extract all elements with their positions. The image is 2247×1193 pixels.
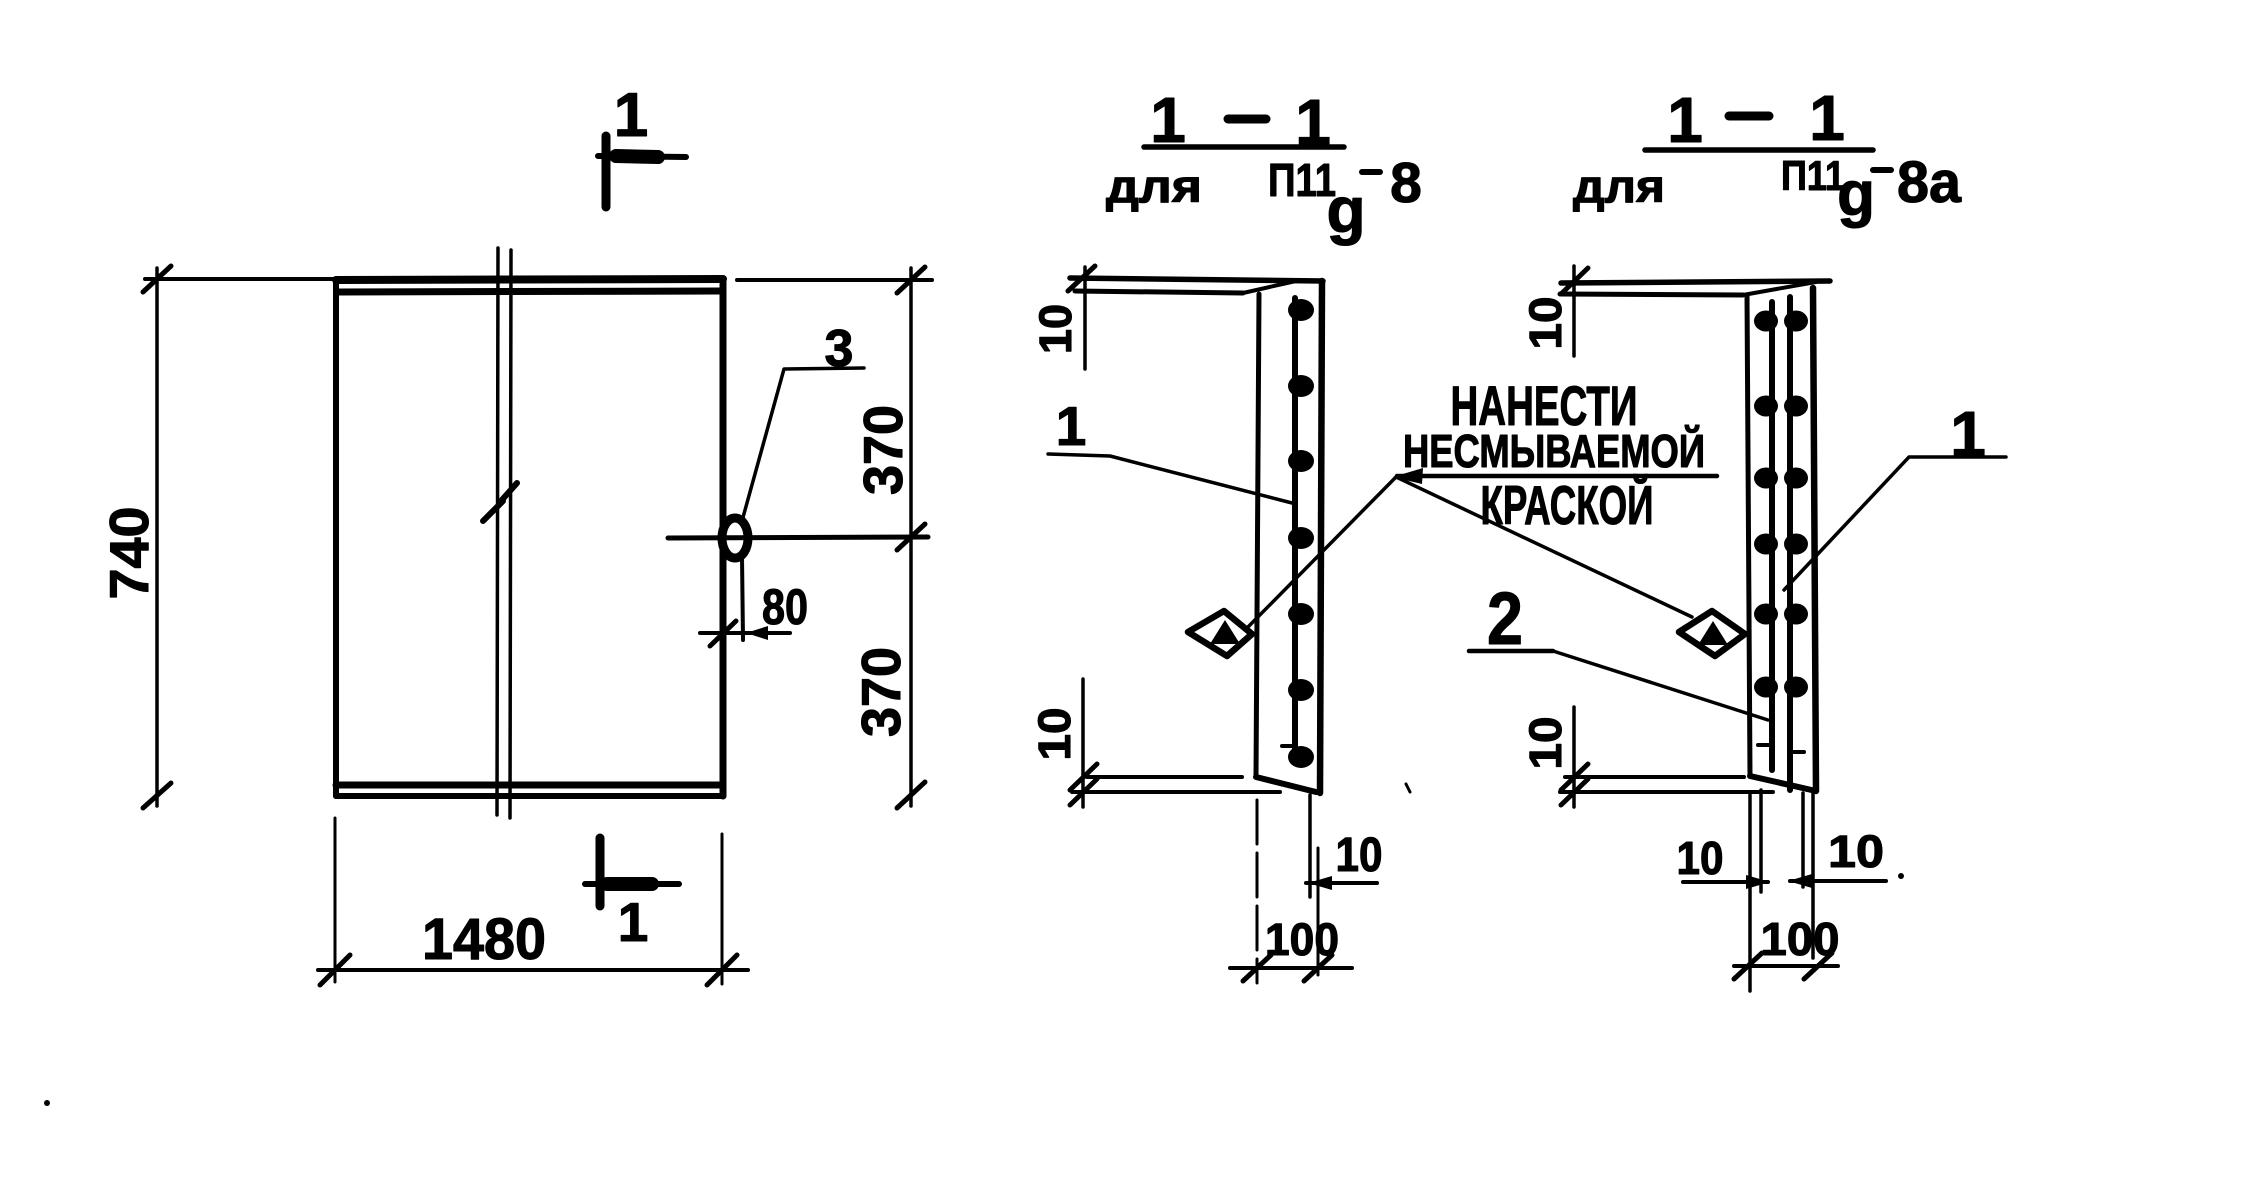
panel left edge — [333, 281, 339, 796]
note leader to left diamond — [1248, 477, 1396, 627]
middle channel web bottom — [1256, 777, 1316, 792]
middle leader 1 line — [1048, 454, 1292, 503]
right rebar dots — [1754, 311, 1808, 698]
leader 2 line — [1553, 651, 1768, 720]
dim 370 tick mid — [897, 524, 925, 550]
middle rebar dots — [1288, 299, 1314, 768]
middle dim 10 top line — [1083, 267, 1087, 369]
dim 80 arrow — [746, 626, 768, 640]
svg-text:1: 1 — [1056, 395, 1087, 457]
svg-text:10: 10 — [1336, 829, 1383, 882]
svg-text:10: 10 — [1029, 708, 1080, 761]
section marker bottom arrow — [585, 881, 679, 887]
svg-text:1: 1 — [1950, 398, 1986, 470]
speck mid — [1406, 784, 1410, 792]
right channel web left line — [1747, 295, 1750, 776]
leader 2 underline — [1469, 649, 1553, 654]
panel right edge — [720, 280, 727, 796]
right bottom dim 10 ticks — [1561, 764, 1588, 790]
svg-text:80: 80 — [762, 579, 808, 635]
middle dim 100 line — [1230, 966, 1352, 970]
svg-text:370: 370 — [850, 647, 912, 737]
dim 80 dimension line — [700, 631, 790, 635]
section marker top tick — [602, 136, 611, 207]
dim 370 tick bottom — [897, 782, 925, 808]
svg-text:для: для — [1573, 160, 1665, 212]
right title underline — [1645, 147, 1873, 153]
svg-text:НЕСМЫВАЕМОЙ: НЕСМЫВАЕМОЙ — [1403, 425, 1705, 477]
note underline — [1397, 474, 1717, 479]
right rebar 2 — [1787, 297, 1793, 790]
section marker bottom tick — [596, 838, 605, 906]
svg-text:10: 10 — [1520, 297, 1571, 350]
right below-web extensions — [1748, 795, 1752, 991]
right dim 100 ticks — [1734, 953, 1762, 979]
dim 740 tick top — [143, 266, 171, 292]
dim 1480 extension right — [721, 834, 724, 984]
svg-text:1: 1 — [1667, 84, 1703, 156]
right dim 10 top line — [1572, 266, 1576, 356]
middle bottom dim 10 vertical — [1081, 679, 1085, 807]
middle channel top flange upper line — [1070, 278, 1323, 281]
svg-text:10: 10 — [1030, 304, 1081, 354]
svg-text:1480: 1480 — [422, 907, 546, 972]
dim 740 tick bottom — [143, 783, 171, 808]
svg-text:740: 740 — [98, 507, 160, 600]
right channel web right line — [1813, 288, 1816, 791]
section marker top arrow — [598, 156, 686, 157]
svg-text:8а: 8а — [1897, 150, 1962, 215]
mid dimension line 370/370 — [668, 537, 928, 538]
right dim 10 left line — [1683, 880, 1768, 884]
svg-text:g: g — [1837, 160, 1875, 229]
middle dim 100 ticks — [1243, 955, 1271, 981]
right channel flange end wedge — [1743, 282, 1816, 295]
middle diamond A mark — [1188, 611, 1252, 656]
right bottom dim 10 line lower — [1560, 790, 1773, 794]
anchor loop hole — [722, 518, 748, 558]
dim 1480 tick left — [320, 955, 350, 985]
middle title underline — [1144, 144, 1344, 150]
svg-text:1: 1 — [618, 891, 649, 953]
svg-text:10: 10 — [1520, 717, 1571, 770]
right bottom dim 10 vertical — [1572, 707, 1576, 807]
line below loop — [742, 556, 743, 640]
right rebar 1 — [1769, 302, 1775, 770]
break line right — [510, 250, 511, 818]
svg-text:1: 1 — [1809, 82, 1845, 154]
panel bottom edge double line — [336, 782, 723, 789]
svg-text:100: 100 — [1761, 913, 1840, 965]
middle channel flange end wedge — [1243, 281, 1296, 293]
right diamond A mark — [1679, 611, 1745, 656]
dim 370 dimension line right — [909, 268, 913, 806]
right bottom dim 10 line upper — [1565, 775, 1744, 779]
svg-text:10: 10 — [1677, 832, 1724, 884]
middle bottom dim 10 line lower — [1072, 790, 1280, 794]
dim 80 tick left — [710, 621, 736, 646]
middle below-web extension mid — [1308, 795, 1312, 897]
dim 740 dimension line — [155, 268, 159, 806]
speck bottom left — [44, 1100, 50, 1106]
right dim 10 right line — [1790, 879, 1886, 883]
dim 370 extension top right — [737, 278, 932, 282]
middle dim 10 top tick — [1068, 266, 1095, 291]
note leader to right diamond — [1396, 477, 1692, 617]
svg-text:КРАСКОЙ: КРАСКОЙ — [1481, 473, 1654, 536]
speck right — [1898, 873, 1904, 879]
middle channel top flange lower line — [1075, 291, 1243, 293]
leader 3 line — [742, 368, 864, 521]
note arrowhead — [1393, 468, 1423, 484]
middle channel web left line — [1256, 294, 1259, 777]
svg-text:370: 370 — [852, 405, 914, 495]
svg-text:1: 1 — [614, 81, 648, 150]
svg-text:10: 10 — [1828, 826, 1884, 877]
svg-text:для: для — [1106, 160, 1202, 212]
right dim 10 top tick — [1561, 268, 1588, 294]
svg-text:100: 100 — [1265, 914, 1339, 965]
middle channel web right line — [1320, 281, 1322, 793]
right dim 100 line — [1734, 964, 1838, 968]
dim 370 tick top — [897, 267, 925, 293]
middle below-web extension right — [1317, 848, 1320, 975]
svg-text:8: 8 — [1390, 151, 1422, 215]
middle bottom dim 10 ticks — [1070, 764, 1097, 790]
svg-text:2: 2 — [1487, 577, 1523, 660]
dim 1480 tick right — [707, 955, 737, 985]
middle rebar line — [1292, 298, 1298, 760]
middle rebar hook — [1282, 744, 1295, 748]
middle dim 10 web line — [1306, 881, 1377, 885]
dim 1480 extension left — [334, 818, 337, 982]
right channel web bottom — [1750, 776, 1816, 791]
dim 740 extension top — [145, 277, 336, 281]
middle below-web extension left — [1256, 800, 1259, 983]
svg-text:g: g — [1326, 174, 1365, 246]
panel top edge double line — [336, 279, 723, 280]
dim 1480 dimension line — [318, 968, 748, 972]
svg-text:3: 3 — [825, 320, 854, 378]
middle dim 10 web arrow — [1308, 876, 1332, 890]
right channel top flange lower line — [1560, 294, 1743, 295]
middle bottom dim 10 line upper — [1087, 775, 1242, 779]
right leader 1 line — [1784, 457, 2006, 590]
svg-text:П11: П11 — [1781, 152, 1845, 199]
break line left — [497, 248, 498, 815]
right channel top flange upper line — [1561, 281, 1830, 283]
